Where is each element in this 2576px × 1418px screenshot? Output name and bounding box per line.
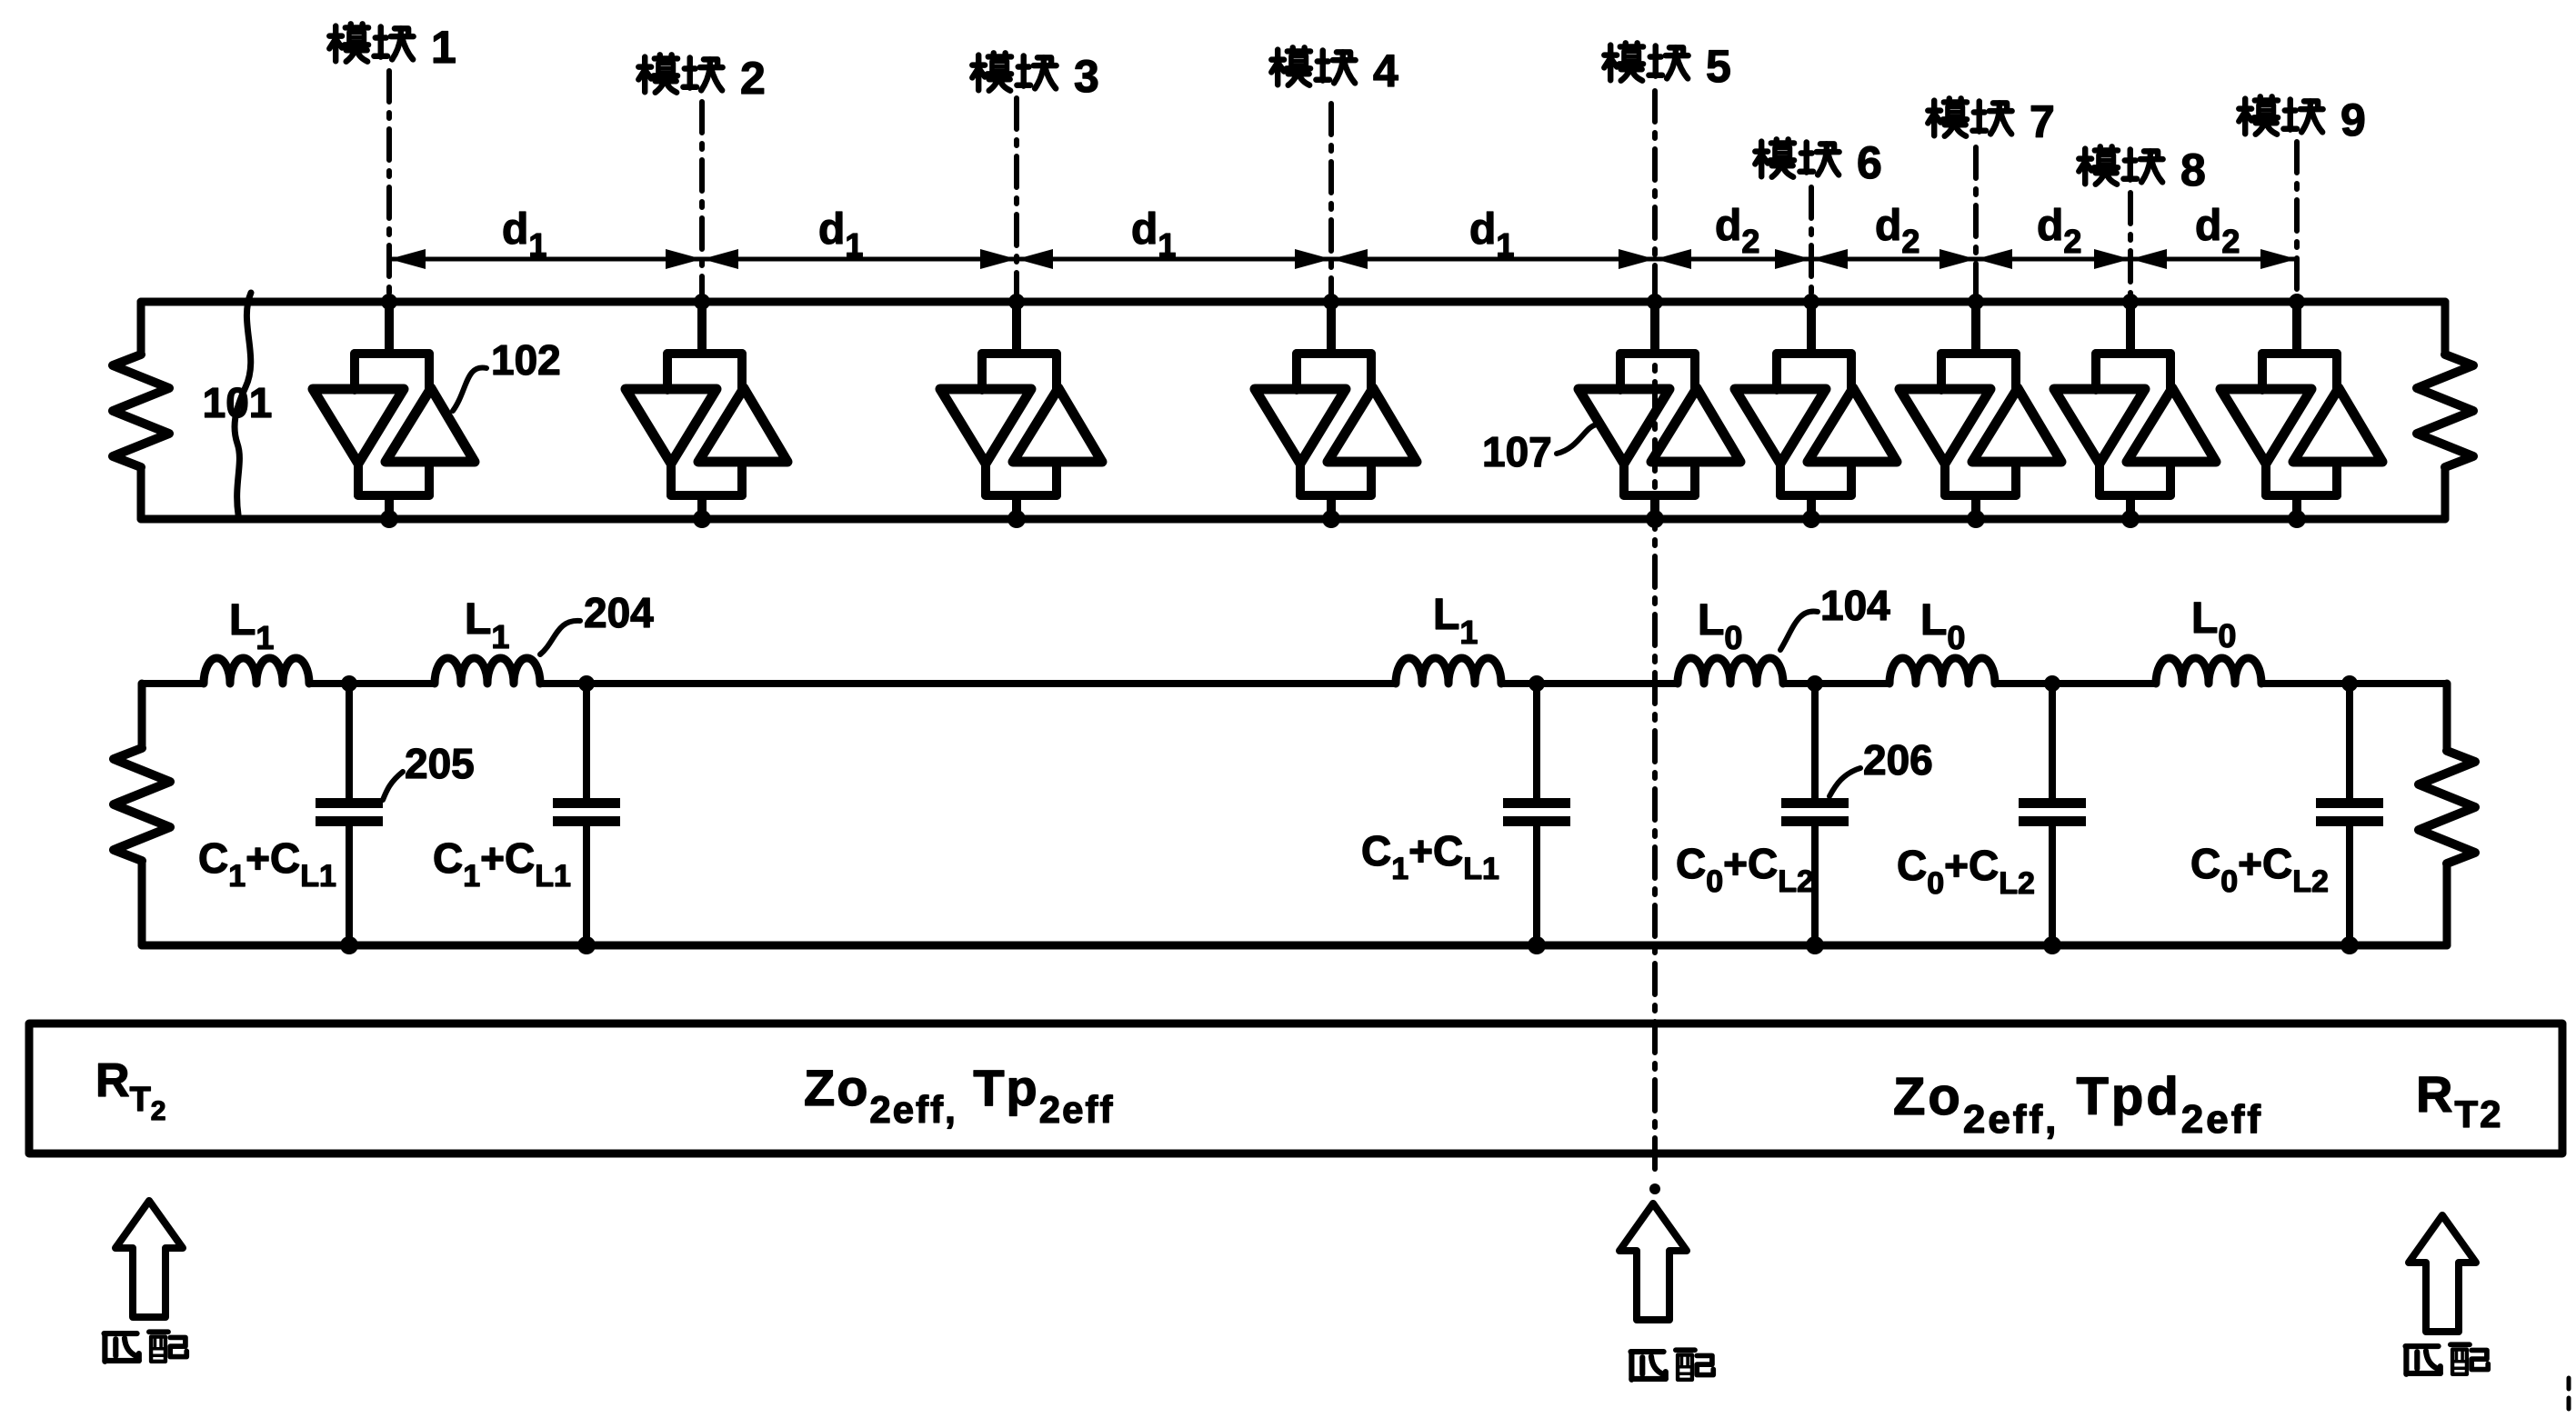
wire: leader from label 107 to transceiver U5	[1557, 424, 1612, 454]
inductor L0 #2	[1889, 658, 1995, 684]
capacitor C1+CL1 #3	[1503, 675, 1570, 954]
svg-text:L1: L1	[229, 596, 274, 656]
svg-text:d2: d2	[2037, 202, 2081, 260]
node label: module 2 (Chinese mokuai 2)	[638, 53, 766, 104]
wire: LC ladder top rail segment 4	[1501, 680, 1678, 687]
inductor L0 #3	[2156, 658, 2261, 684]
resistor: left bus termination	[113, 302, 169, 519]
wire: stray mark at lower-right edge	[2567, 1378, 2571, 1418]
node: match arrow middle (pipei)	[1619, 1203, 1687, 1320]
wire: dimension line for spacings d1/d2	[389, 257, 2297, 262]
wire: bus 101 top conductor	[141, 298, 2445, 306]
capacitor C0+CL2 #2	[2019, 675, 2086, 954]
wire: module 3 dash-dot center line	[1014, 98, 1019, 301]
transceiver U1 (bidirectional driver/receiver) at module 1	[313, 294, 475, 528]
svg-text:d1: d1	[1131, 205, 1176, 264]
resistor: ladder right termination	[2419, 684, 2475, 945]
node label: module 7 (Chinese mokuai 7)	[1928, 96, 2055, 147]
capacitor C1+CL1 #2	[553, 675, 620, 954]
capacitor C0+CL2 #3	[2316, 675, 2383, 954]
svg-text:C1+CL1: C1+CL1	[198, 834, 336, 894]
svg-text:107: 107	[1482, 428, 1552, 475]
wire: LC ladder top rail segment 7	[2261, 680, 2447, 687]
wire: module 9 dash-dot center line	[2294, 142, 2300, 301]
node: dimension arrowheads at module 3	[980, 249, 1017, 269]
inductor L0 #1 (104)	[1678, 658, 1783, 684]
wire: LC ladder top rail segment 6	[1995, 680, 2156, 687]
svg-text:204: 204	[584, 589, 654, 636]
inductor L1 #2 (204)	[435, 658, 540, 684]
svg-text:3: 3	[1074, 51, 1099, 102]
svg-text:L0: L0	[2191, 594, 2236, 654]
transceiver U7 (bidirectional driver/receiver) at module 7	[1899, 294, 2061, 528]
wire: bus 101 bottom conductor	[141, 515, 2445, 524]
node label: module 6 (Chinese mokuai 6)	[1755, 137, 1882, 188]
node label: module 9 (Chinese mokuai 9)	[2239, 95, 2366, 145]
transceiver U3 (bidirectional driver/receiver) at module 3	[940, 294, 1102, 528]
svg-text:Zo2eff, Tpd2eff: Zo2eff, Tpd2eff	[1893, 1067, 2263, 1142]
svg-text:C0+CL2: C0+CL2	[1676, 840, 1814, 899]
node: dimension arrowheads at module 2	[666, 249, 702, 269]
wire: module 4 dash-dot center line	[1328, 104, 1334, 301]
wire: module 1 dash-dot center line	[386, 71, 392, 301]
resistor: right bus termination	[2417, 302, 2473, 519]
wire: module 5 dash-dot center line	[1652, 91, 1658, 1176]
svg-text:C1+CL1: C1+CL1	[1361, 827, 1499, 886]
wire: leader from label 205 to capacitor	[383, 772, 403, 800]
wire: LC ladder bottom rail	[142, 942, 2447, 950]
svg-text:104: 104	[1820, 582, 1890, 629]
svg-text:RT2: RT2	[95, 1054, 165, 1126]
capacitor C0+CL2 #1 (206)	[1781, 675, 1849, 954]
node label: module 5 (Chinese mokuai 5)	[1604, 41, 1731, 92]
wire: LC ladder top rail segment 2	[309, 680, 435, 687]
svg-text:8: 8	[2180, 145, 2206, 195]
node: dimension arrowhead at module 1	[389, 249, 426, 269]
svg-text:L1: L1	[1433, 591, 1478, 651]
wire: leader from label 102 to transceiver U1	[453, 367, 486, 411]
svg-text:d1: d1	[502, 205, 546, 264]
node label: module 8 (Chinese mokuai 8)	[2079, 145, 2206, 195]
svg-text:4: 4	[1373, 45, 1398, 96]
wire: module 2 dash-dot center line	[699, 102, 705, 301]
svg-text:L0: L0	[1920, 596, 1965, 656]
inductor L1 #3	[1396, 658, 1501, 684]
wire: leader from label 206 to capacitor	[1829, 768, 1860, 796]
node: dimension arrowheads at module 7	[1940, 249, 1976, 269]
node: dimension arrowheads at module 6	[1775, 249, 1811, 269]
svg-text:9: 9	[2340, 95, 2366, 145]
node: dimension arrowhead at module 9	[2260, 249, 2297, 269]
svg-text:d2: d2	[1875, 202, 1919, 260]
node: match arrow left (pipei)	[115, 1201, 183, 1317]
wire: leader from label 104 to inductor	[1780, 612, 1818, 650]
inductor L1 #1	[204, 658, 309, 684]
svg-text:d2: d2	[1715, 202, 1759, 260]
node: effective transmission line block (Zo2eff)	[29, 1024, 2562, 1153]
node label: module 3 (Chinese mokuai 3)	[972, 51, 1099, 102]
node: dimension arrowheads at module 5	[1619, 249, 1655, 269]
node: match arrow right (pipei)	[2409, 1215, 2476, 1332]
transceiver U4 (bidirectional driver/receiver) at module 4	[1255, 294, 1417, 528]
wire: LC ladder top rail segment 1	[142, 680, 204, 687]
svg-text:6: 6	[1857, 137, 1882, 188]
node label: module 1 (Chinese mokuai 1)	[329, 22, 456, 73]
transceiver U9 (bidirectional driver/receiver) at module 9	[2220, 294, 2382, 528]
transceiver U8 (bidirectional driver/receiver) at module 8	[2054, 294, 2216, 528]
wire: LC ladder top rail segment 3	[540, 680, 1396, 687]
svg-text:L1: L1	[465, 595, 509, 655]
wire: module 6 dash-dot center line	[1809, 187, 1814, 301]
svg-text:d1: d1	[1469, 205, 1514, 264]
svg-text:L0: L0	[1698, 596, 1742, 656]
resistor: ladder left termination	[114, 684, 170, 945]
transceiver U2 (bidirectional driver/receiver) at module 2	[626, 294, 787, 528]
svg-text:C1+CL1: C1+CL1	[433, 834, 571, 894]
svg-text:RT2: RT2	[2416, 1065, 2502, 1135]
svg-text:d1: d1	[818, 205, 863, 264]
transceiver U6 (bidirectional driver/receiver) at module 6	[1735, 294, 1897, 528]
capacitor C1+CL1 #1 (205)	[316, 675, 383, 954]
svg-text:Zo2eff, Tp2eff: Zo2eff, Tp2eff	[804, 1059, 1114, 1131]
transceiver U5 (bidirectional driver/receiver) at module 5	[1579, 294, 1740, 528]
wire: LC ladder top rail segment 5	[1783, 680, 1889, 687]
svg-text:d2: d2	[2195, 202, 2240, 260]
svg-text:2: 2	[740, 53, 766, 104]
svg-text:5: 5	[1706, 41, 1731, 92]
node label: match (Chinese pipei) middle	[1631, 1350, 1714, 1380]
svg-text:C0+CL2: C0+CL2	[1897, 842, 2035, 901]
svg-text:206: 206	[1863, 736, 1933, 784]
svg-text:1: 1	[431, 22, 456, 73]
node: dimension arrowheads at module 4	[1295, 249, 1331, 269]
node label: match (Chinese pipei) left	[105, 1332, 187, 1362]
node: end dot of module 5 center line	[1649, 1183, 1660, 1194]
wire: module 8 dash-dot center line	[2128, 193, 2133, 301]
svg-text:101: 101	[203, 379, 273, 426]
svg-text:C0+CL2: C0+CL2	[2190, 840, 2329, 899]
node label: match (Chinese pipei) right	[2406, 1344, 2489, 1374]
wire: bus break squiggle	[235, 293, 251, 514]
svg-text:102: 102	[491, 336, 561, 384]
svg-text:7: 7	[2030, 96, 2055, 147]
wire: leader from label 204 to inductor	[540, 621, 580, 654]
svg-text:205: 205	[405, 740, 475, 787]
wire: module 7 dash-dot center line	[1973, 147, 1979, 301]
node label: module 4 (Chinese mokuai 4)	[1271, 45, 1398, 96]
node: dimension arrowheads at module 8	[2094, 249, 2130, 269]
